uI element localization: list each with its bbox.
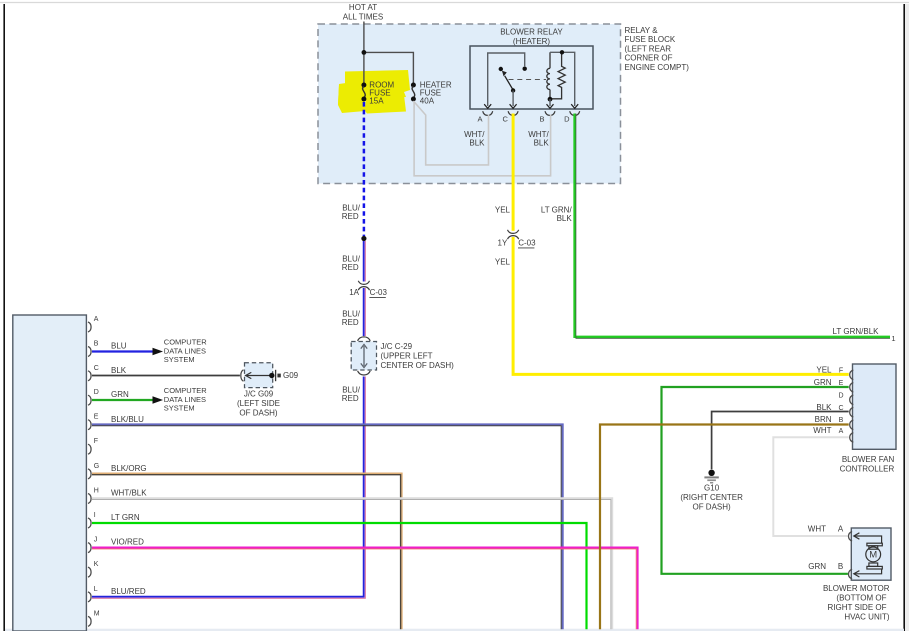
svg-text:(RIGHT CENTER: (RIGHT CENTER [680, 493, 743, 502]
relay coil top run and pin D feed [550, 52, 575, 106]
svg-text:J/C C-29: J/C C-29 [381, 342, 413, 351]
svg-text:M: M [869, 550, 877, 561]
svg-text:WHT/BLK: WHT/BLK [111, 489, 147, 498]
svg-text:WHT: WHT [813, 426, 831, 435]
wire BLU/RED J/C C-29 down to pin L run [92, 377, 365, 599]
svg-text:L: L [94, 586, 98, 593]
svg-text:BLK: BLK [534, 138, 550, 147]
svg-text:YEL: YEL [495, 205, 511, 214]
svg-text:D: D [838, 393, 843, 400]
relay pin C riser [512, 91, 514, 107]
label HOT AT ALL TIMES [343, 3, 383, 22]
wire YEL relay pin C down [512, 114, 515, 231]
node coil top [560, 50, 564, 54]
relay pin cups [483, 111, 580, 115]
svg-text:A: A [838, 524, 844, 533]
svg-text:1A: 1A [349, 288, 359, 297]
highlighter mark over ROOM FUSE [338, 70, 410, 114]
junction J/C C-29 [351, 337, 454, 375]
svg-text:RELAY &: RELAY & [625, 26, 659, 35]
svg-text:C: C [94, 365, 99, 372]
page left border [3, 4, 5, 631]
left box pin letters [94, 316, 100, 617]
svg-text:ENGINE COMPT): ENGINE COMPT) [625, 63, 690, 72]
connector C-03 pin 1A [358, 281, 369, 290]
svg-text:1: 1 [891, 334, 895, 343]
svg-text:C-03: C-03 [518, 239, 536, 248]
relay coil [547, 52, 550, 99]
svg-text:YEL: YEL [816, 366, 832, 375]
svg-text:D: D [94, 389, 99, 396]
label WHT A motor [808, 524, 844, 533]
svg-text:SYSTEM: SYSTEM [164, 403, 195, 412]
relay fixed contact dots [523, 67, 527, 71]
svg-text:(LEFT SIDE: (LEFT SIDE [237, 399, 280, 408]
label BLOWER MOTOR location [823, 584, 890, 622]
svg-text:GRN: GRN [808, 562, 826, 571]
svg-text:BLK/BLU: BLK/BLU [111, 415, 144, 424]
svg-text:RED: RED [342, 263, 359, 272]
svg-text:BLU: BLU [111, 342, 127, 351]
svg-text:E: E [94, 414, 99, 421]
node coil bottom [548, 97, 553, 102]
svg-text:B: B [94, 341, 99, 348]
wire hot feed [364, 22, 414, 85]
relay pin down arrows [484, 104, 578, 108]
svg-text:WHT: WHT [808, 524, 826, 533]
svg-text:BLK: BLK [111, 366, 127, 375]
svg-text:A: A [839, 428, 844, 435]
svg-text:F: F [839, 368, 843, 375]
label BLU/RED [342, 309, 361, 327]
svg-text:BLK/ORG: BLK/ORG [111, 464, 147, 473]
component blower motor box [851, 528, 891, 580]
svg-text:G10: G10 [704, 484, 720, 493]
svg-text:GRN: GRN [111, 390, 129, 399]
svg-text:A: A [94, 316, 99, 323]
svg-text:F: F [94, 438, 98, 445]
svg-text:HVAC UNIT): HVAC UNIT) [844, 612, 890, 621]
svg-text:J: J [94, 537, 98, 544]
svg-text:D: D [564, 114, 570, 123]
page top gray rule [0, 2, 909, 4]
svg-text:B: B [839, 417, 844, 424]
relay switch arm [502, 71, 515, 93]
svg-text:(HEATER): (HEATER) [513, 37, 551, 46]
svg-text:BRN: BRN [815, 415, 832, 424]
motor pin bracket B [849, 569, 853, 579]
wire BLU/RED fusible dashed segment [363, 102, 366, 236]
wire BLK/BLU pin E [92, 424, 563, 629]
svg-text:I: I [94, 512, 96, 519]
controller pin letters [838, 368, 843, 435]
wire VIO/RED pin J [92, 548, 638, 630]
wire BLU/RED C-03 to J/C C-29 [364, 288, 366, 336]
svg-text:CENTER OF DASH): CENTER OF DASH) [381, 361, 455, 370]
svg-text:J/C G09: J/C G09 [244, 390, 274, 399]
svg-text:VIO/RED: VIO/RED [111, 538, 144, 547]
wire WHT/BLK pin H [92, 498, 612, 629]
junction J/C G09 [237, 363, 299, 418]
wire LT GRN pin I [92, 523, 587, 629]
relay pin letters A C B D [477, 114, 570, 123]
svg-text:B: B [539, 114, 544, 123]
relay & fuse block (dashed box) [318, 24, 621, 184]
svg-text:G09: G09 [283, 371, 299, 380]
motor internal wiring pin A [854, 533, 882, 543]
svg-text:CONTROLLER: CONTROLLER [840, 464, 895, 473]
fuse ROOM FUSE 15A [361, 81, 394, 106]
svg-text:BLK: BLK [469, 138, 485, 147]
svg-text:LT GRN: LT GRN [111, 513, 140, 522]
svg-text:FUSE BLOCK: FUSE BLOCK [625, 35, 676, 44]
svg-text:M: M [94, 610, 100, 617]
svg-text:OF DASH): OF DASH) [692, 503, 731, 512]
svg-text:RIGHT SIDE OF: RIGHT SIDE OF [828, 603, 887, 612]
wire BLU/RED splice to C-03 [364, 241, 366, 282]
left box pin brackets A-M [88, 322, 91, 626]
fuse HEATER FUSE 40A [411, 81, 452, 106]
component left module connector box [13, 315, 87, 631]
svg-text:RED: RED [342, 394, 359, 403]
label BLU/RED [342, 203, 361, 221]
label WHT/BLK pin B [528, 130, 549, 148]
motor pin bracket A [849, 532, 853, 542]
connector C-03 pin 1Y [508, 230, 519, 239]
wire BLK/ORG pin G [92, 473, 402, 629]
wire WHT/BLK fuse to relay pin A [413, 101, 488, 165]
svg-text:1Y: 1Y [498, 239, 508, 248]
wire WHT controller pin A to blower motor pin A [773, 437, 848, 536]
svg-text:K: K [94, 561, 99, 568]
component blower fan controller box [853, 364, 897, 449]
wire GRN pin D [92, 399, 153, 401]
label GRN B motor [808, 562, 843, 571]
node splice dot [361, 236, 366, 241]
svg-text:RED: RED [342, 212, 359, 221]
label BLU/RED [342, 254, 361, 272]
page right border [903, 4, 905, 631]
label RELAY & FUSE BLOCK location [625, 26, 690, 72]
svg-text:40A: 40A [420, 96, 435, 105]
label WHT/BLK pin A [464, 130, 485, 148]
relay K1 BLOWER RELAY (HEATER) box [470, 28, 593, 109]
wire BLK controller pin C to ground [712, 412, 849, 470]
svg-text:(LEFT REAR: (LEFT REAR [625, 44, 672, 53]
label BLOWER FAN CONTROLLER [840, 455, 895, 474]
svg-text:G: G [94, 463, 99, 470]
motor M1 symbol [866, 543, 883, 569]
relay internal wire to contact [488, 53, 525, 106]
svg-text:RED: RED [342, 318, 359, 327]
node junction dot [362, 50, 367, 55]
svg-text:BLK: BLK [557, 214, 573, 223]
wire BLK pin C to J/C G09 [92, 375, 240, 377]
svg-text:BLOWER RELAY: BLOWER RELAY [500, 28, 563, 37]
relay pin B riser [549, 99, 551, 106]
bottom partial next-section strip [5, 629, 904, 631]
arrow to computer data lines [153, 348, 164, 355]
svg-text:A: A [477, 114, 482, 123]
ground G10 [680, 470, 743, 512]
svg-text:BLOWER FAN: BLOWER FAN [842, 455, 895, 464]
label BLU/RED [342, 386, 361, 404]
wire LT GRN/BLK relay pin D down and right [575, 114, 891, 339]
svg-text:ALL TIMES: ALL TIMES [343, 13, 383, 22]
svg-text:C-03: C-03 [370, 288, 388, 297]
label LT GRN/ BLK [541, 205, 573, 223]
svg-text:GRN: GRN [814, 378, 832, 387]
svg-text:H: H [94, 488, 99, 495]
arrow to computer data lines [153, 396, 164, 403]
controller pin brackets F E D C B A [850, 370, 854, 442]
wire WHT/BLK fuse to relay pin B [414, 101, 550, 176]
svg-text:CORNER OF: CORNER OF [625, 54, 673, 63]
svg-text:BLU/RED: BLU/RED [111, 587, 146, 596]
svg-text:YEL: YEL [495, 257, 511, 266]
svg-text:C: C [502, 114, 508, 123]
controller wire labels [813, 366, 832, 435]
relay actuation dashed link [509, 79, 547, 81]
wire BLU pin B [92, 350, 153, 352]
svg-text:SYSTEM: SYSTEM [164, 355, 195, 364]
relay coil resistor [551, 52, 566, 99]
svg-text:OF DASH): OF DASH) [239, 409, 278, 418]
svg-text:LT GRN/BLK: LT GRN/BLK [833, 327, 880, 336]
svg-text:(UPPER LEFT: (UPPER LEFT [381, 351, 433, 360]
svg-text:(BOTTOM OF: (BOTTOM OF [836, 593, 886, 602]
svg-text:E: E [839, 380, 844, 387]
wire YEL C-03 to blower fan controller pin F [513, 237, 849, 374]
motor internal wiring pin B [854, 569, 882, 577]
svg-text:HOT AT: HOT AT [349, 3, 377, 12]
wire BRN controller pin B down [600, 425, 849, 630]
svg-text:BLOWER MOTOR: BLOWER MOTOR [823, 584, 890, 593]
svg-text:15A: 15A [369, 96, 384, 105]
wire GRN controller pin E to blower motor pin B [662, 387, 849, 574]
svg-text:B: B [838, 562, 843, 571]
